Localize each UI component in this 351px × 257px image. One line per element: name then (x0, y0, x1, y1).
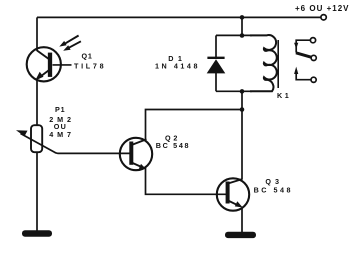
svg-text:K1: K1 (277, 91, 291, 100)
svg-text:4M7: 4M7 (49, 130, 75, 139)
svg-text:P1: P1 (55, 105, 65, 114)
svg-text:BC 548: BC 548 (156, 141, 191, 150)
svg-text:Q3: Q3 (265, 177, 283, 186)
svg-text:1N 4148: 1N 4148 (155, 61, 200, 70)
svg-text:BC 548: BC 548 (254, 186, 293, 195)
svg-text:Q1: Q1 (82, 51, 93, 60)
svg-text:+6 OU +12V: +6 OU +12V (295, 4, 349, 13)
svg-text:TIL78: TIL78 (74, 61, 106, 70)
